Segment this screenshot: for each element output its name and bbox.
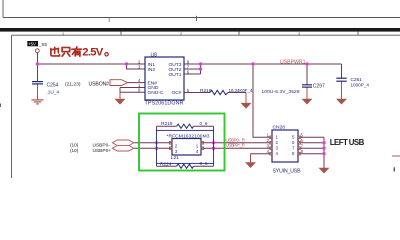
svg-text:L21: L21: [171, 155, 179, 161]
svg-text:1: 1: [62, 32, 64, 36]
svg-text:4: 4: [196, 149, 199, 154]
svg-text:1000P_4: 1000P_4: [351, 83, 370, 88]
svg-text:CN28: CN28: [273, 125, 286, 131]
svg-text:2: 2: [175, 143, 178, 148]
svg-text:(21,23): (21,23): [65, 81, 81, 87]
svg-text:R218: R218: [200, 88, 212, 94]
svg-text:2.5V: 2.5V: [82, 47, 103, 59]
svg-text:TPS2061DGNR: TPS2061DGNR: [145, 101, 184, 107]
svg-text:1: 1: [196, 143, 199, 148]
svg-text:2: 2: [180, 32, 182, 36]
svg-text:IN2: IN2: [148, 67, 156, 73]
svg-text:100U-6.3V_3528: 100U-6.3V_3528: [262, 89, 300, 95]
svg-text:LEFT USB: LEFT USB: [330, 138, 365, 147]
svg-text:0_6: 0_6: [200, 121, 208, 127]
svg-text:(10): (10): [70, 142, 79, 147]
svg-text:0_6: 0_6: [200, 161, 208, 167]
svg-text:U8: U8: [151, 53, 158, 59]
svg-text:3: 3: [175, 149, 178, 154]
svg-text:USBP0-: USBP0-: [93, 142, 111, 148]
svg-text:USBPWR1: USBPWR1: [280, 60, 306, 66]
svg-text:SYUIN_USB: SYUIN_USB: [273, 169, 302, 175]
svg-text:C297: C297: [313, 84, 325, 90]
svg-text:.1U_4: .1U_4: [47, 89, 60, 94]
svg-text:_S5: _S5: [38, 42, 48, 47]
svg-text:3: 3: [298, 32, 300, 36]
svg-text:C254: C254: [47, 82, 59, 88]
svg-text:16.34K0F_4: 16.34K0F_4: [229, 88, 253, 93]
svg-text:R224: R224: [160, 162, 172, 168]
svg-text:USBP0+: USBP0+: [93, 148, 112, 154]
svg-text:R219: R219: [161, 121, 173, 127]
svg-text:(10): (10): [70, 148, 79, 153]
svg-text:+5V: +5V: [28, 41, 36, 46]
svg-text:OUT1: OUT1: [168, 72, 181, 78]
svg-text:USBP0-_R: USBP0-_R: [226, 137, 246, 142]
svg-text:GND-C: GND-C: [148, 90, 164, 96]
svg-text:USBON#: USBON#: [89, 81, 110, 87]
svg-text:USBP0+_R: USBP0+_R: [226, 143, 246, 148]
svg-text:OC#: OC#: [171, 90, 181, 96]
